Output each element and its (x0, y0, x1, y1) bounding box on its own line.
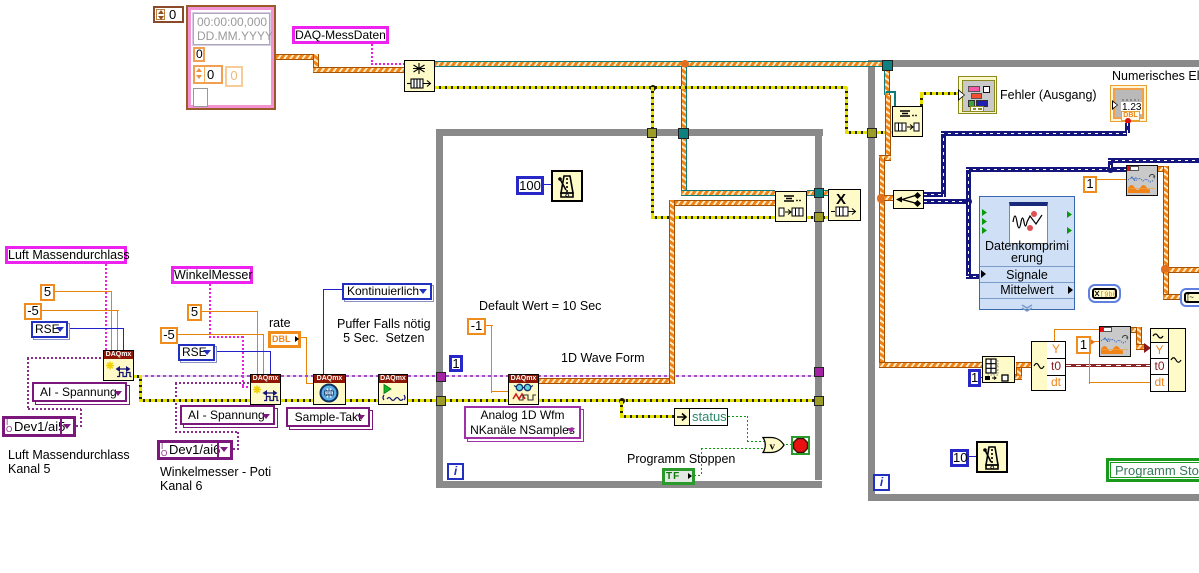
queue junction (681, 60, 689, 68)
dyn vertical to chart row and signale (966, 167, 971, 279)
DBL constant (rate) (268, 331, 301, 348)
error branch down into producer loop (651, 87, 654, 218)
svg-text:v: v (770, 441, 776, 453)
express chart indicator 2 (1099, 326, 1131, 357)
dyn wire split out bottom (924, 199, 969, 204)
tunnel queue (right border) (814, 188, 824, 198)
text 1D Wave Form (561, 351, 645, 365)
tunnel task out (right border) (814, 367, 824, 377)
I/O constant Dev1/ai6 (157, 440, 233, 460)
text Programm Stoppen (627, 452, 735, 466)
queue wire out of obtain queue to consumer tunnel (435, 61, 886, 67)
error junction (650, 85, 656, 91)
wire junction to split signals (884, 195, 894, 201)
consumer while loop left border (868, 60, 875, 501)
ring Sample-Takt (286, 407, 370, 427)
constant 10 (blue) (950, 449, 969, 467)
ring AI - Spannung (ai6) (180, 405, 275, 425)
error wire enqueue to tunnel to release (807, 216, 828, 219)
op: DAQmx Timing (313, 374, 346, 405)
queue wire to enqueue (681, 190, 775, 196)
waveform wire read to enqueue (538, 378, 675, 384)
tunnel error (right border) (814, 212, 824, 222)
text Puffer Falls noetig (337, 317, 431, 345)
task wire read node to right tunnel (538, 375, 814, 377)
wire string WinkelMesser to node2 (209, 284, 211, 337)
constant 1 (blue, index) (968, 369, 981, 387)
timestamp display (193, 13, 270, 45)
tunnel queue (top border) (678, 128, 689, 139)
error node4 to loop tunnel (408, 399, 437, 402)
wire Dev1/ai6 to node2 (channel) (237, 432, 239, 449)
op: unbundle status (674, 408, 728, 426)
text Winkelmesser - Poti Kanal 6 (160, 465, 271, 493)
wire 1 to chart1 (1097, 179, 1127, 180)
ring RSE (ai5) (31, 321, 68, 338)
wire cluster to obtain queue (276, 54, 318, 60)
text Default Wert = 10 Sec (479, 299, 601, 313)
dyn wire up into DBL indicator (1125, 123, 1130, 133)
wire RSE2 (215, 351, 271, 352)
constant 100 (516, 176, 544, 195)
error wire tunnel to dequeue (877, 131, 892, 134)
task wire node4 to loop tunnel (408, 375, 437, 377)
I/O constant Dev1/ai5 (2, 416, 76, 437)
tunnel error (consumer left border) (867, 128, 877, 138)
cluster constant (timestamp etc.) (186, 5, 276, 110)
wire t0 to build waveform (1066, 364, 1150, 367)
label Luft Massendurchlass (5, 246, 127, 264)
ring Analog 1D Wfm NKanaele NSamples (464, 406, 581, 439)
op: DAQmx Read (508, 374, 539, 405)
op: DAQmx Create Channel (ai5) (103, 350, 134, 381)
producer while loop top border (436, 129, 823, 136)
constant -5 (ai5 min) (24, 303, 42, 320)
op: Enqueue Element (775, 191, 807, 222)
constant -1 (467, 318, 486, 335)
error node2-node3 (281, 399, 313, 402)
error wire dequeue up to Fehler indicator (920, 94, 923, 134)
wire 5 (202, 311, 258, 312)
ring Kontinuierlich (342, 283, 432, 300)
wire Y up to chart2 (1054, 329, 1055, 341)
error to enqueue (651, 216, 775, 219)
express VI Datenkomprimierung (979, 196, 1075, 310)
ring RSE (ai6) (178, 344, 215, 361)
junction (1161, 265, 1170, 274)
error branch down to consumer (845, 87, 848, 133)
bool wire status to OR (728, 416, 748, 417)
dyn junction (965, 198, 972, 205)
bool wire TF up to OR (694, 475, 702, 476)
error wire read node to right tunnel with junction (538, 399, 814, 402)
waveform wire chart1 to right edge loop-back (1158, 166, 1169, 172)
wire 100 to wait ms (544, 184, 551, 185)
constant 1 (orange, chart1) (1083, 176, 1097, 193)
queue wire branch down into producer loop (681, 67, 687, 194)
waveform wire chart2 to build waveform (1131, 327, 1141, 333)
numeric with spinner (193, 65, 223, 84)
element wire down to index array (879, 362, 982, 368)
op: Get Waveform Components (1031, 341, 1066, 391)
TF boolean terminal (662, 468, 695, 485)
consumer while loop bottom border (868, 494, 1199, 501)
wire RSE (68, 328, 124, 329)
wire -5 (178, 334, 264, 335)
error wire out of obtain queue (435, 86, 847, 89)
op: Split Signals (893, 190, 924, 209)
stop button terminal (791, 436, 810, 455)
iteration terminal i (consumer) (873, 474, 890, 491)
indicator Numerisches Element (DBL) (1110, 85, 1147, 122)
element wire (waveform cluster) down from dequeue (885, 95, 891, 159)
wire -1 to read node (486, 325, 493, 326)
text Numerisches Element (1112, 69, 1199, 83)
wire 10 to wait (968, 456, 976, 457)
ring AI - Spannung (ai5) (32, 382, 127, 402)
label DAQ-MessDaten (292, 26, 389, 44)
error node1 down (133, 375, 141, 378)
op: Obtain Queue (404, 60, 435, 92)
wire string to node1 (105, 264, 107, 350)
tunnel error (left border) (436, 396, 446, 406)
bool OR to stop (786, 444, 792, 445)
consumer while loop top border (868, 60, 1199, 67)
tunnel error (top border) (647, 128, 657, 138)
svg-text:010: 010 (326, 391, 333, 396)
op: wait until next ms multiple (metronome) (551, 170, 583, 202)
tunnel task (left border) (436, 372, 446, 382)
wire 5 (55, 291, 112, 292)
op: OR gate (761, 436, 786, 455)
express chart indicator 1 (1126, 165, 1158, 196)
error node3-node4 (346, 399, 378, 402)
task wire node2-node3 (281, 375, 313, 377)
constant 5 (ai6 max) (187, 304, 202, 321)
tunnel queue (consumer top border) (882, 60, 893, 71)
op: Dequeue Element (892, 106, 923, 137)
op: Index Array (982, 356, 1015, 383)
constant 5 (ai5 max) (40, 284, 55, 301)
faint numeric 0 (225, 66, 243, 87)
op: DAQmx Create Channel (ai6) (250, 374, 281, 405)
wire string DAQ-MessDaten down (371, 44, 373, 64)
tunnel error out (right border) (814, 396, 824, 406)
wire rate to timing node (301, 337, 307, 338)
svg-text:[9b0]: [9b0] (1100, 292, 1115, 298)
label rate (269, 316, 291, 330)
junction on element wire (877, 194, 886, 203)
wire Dev1/ai5 to node1 (channel) (76, 425, 83, 427)
wire -5 (42, 310, 119, 311)
small white square (193, 88, 208, 107)
task wire node1-node2 (133, 375, 250, 377)
wire index array out to get waveform components (1014, 374, 1022, 380)
op: Release Queue (828, 189, 861, 221)
error into consumer tunnel (845, 131, 892, 134)
dyn wire split out top (924, 192, 946, 197)
producer while loop bottom border (436, 481, 822, 488)
producer while loop right border (815, 129, 822, 480)
wire Kontinuierlich to timing node (324, 289, 342, 290)
op: wait until next ms multiple (consumer metronome) (976, 441, 1008, 473)
op: DAQmx Start Task (378, 374, 408, 405)
error wire tunnel to read node (446, 399, 508, 402)
op: Build Waveform (1150, 328, 1186, 392)
text Luft Massendurchlass Kanal 5 (8, 448, 130, 476)
dyn junction at chart1 (1107, 166, 1114, 173)
constant -5 (ai6 min) (160, 327, 178, 344)
numeric control 0 (153, 6, 184, 23)
producer while loop left border (436, 129, 443, 488)
convert from dynamic data oval (1088, 284, 1121, 303)
iteration terminal i (producer) (447, 463, 464, 480)
queue wire down from tunnel (884, 71, 890, 95)
red coercion dot on DBL indicator (1125, 118, 1131, 124)
indicator Fehler (Ausgang) (958, 76, 997, 114)
constant 1 (blue) (449, 355, 463, 372)
label WinkelMesser (171, 266, 253, 284)
queue wire enqueue to tunnel to release (807, 190, 828, 196)
error node1-node2 (139, 399, 250, 402)
error junction (619, 398, 625, 404)
text Fehler (Ausgang) (1000, 88, 1097, 102)
converter to dynamic data (clipped at edge) (1180, 288, 1199, 307)
boolean Programm Stoppen terminal (consumer) (1106, 458, 1199, 482)
svg-text:X: X (836, 191, 846, 208)
task wire node3-node4 (346, 375, 378, 377)
wire dt: constant 1 down (1076, 336, 1091, 354)
task wire tunnel to read node (446, 375, 508, 377)
error branch to status unbundle (620, 401, 623, 417)
numeric 0 in cluster (193, 47, 205, 62)
queue wire jog into dequeue (886, 91, 896, 93)
